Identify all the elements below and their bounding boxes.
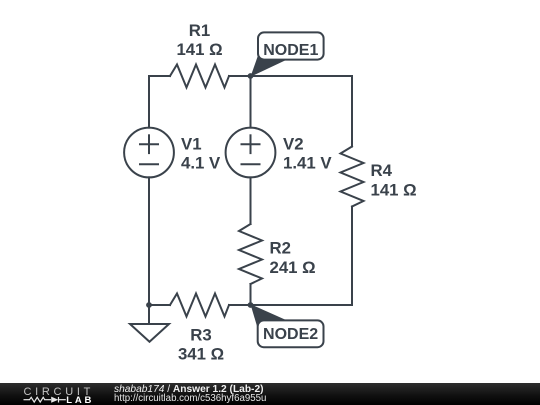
svg-text:V2: V2: [283, 135, 304, 154]
svg-text:141 Ω: 141 Ω: [371, 180, 417, 199]
voltage source V2: [226, 128, 276, 178]
svg-text:241 Ω: 241 Ω: [270, 258, 316, 277]
svg-text:LAB: LAB: [66, 395, 94, 405]
svg-text:4.1 V: 4.1 V: [181, 154, 221, 173]
footer bar: [0, 383, 540, 405]
wire V2 to R2: [250, 177, 252, 224]
node NODE2 callout pointer: [251, 304, 287, 333]
wire R1 to top-right corner: [229, 75, 352, 77]
wire right branch upper: [351, 76, 353, 147]
label V2: [283, 135, 332, 173]
label R3: [178, 326, 224, 364]
svg-text:R2: R2: [270, 239, 291, 258]
svg-text:R1: R1: [189, 21, 210, 40]
svg-text:141 Ω: 141 Ω: [176, 40, 222, 59]
node NODE2 dot: [248, 302, 254, 308]
svg-text:NODE1: NODE1: [263, 42, 318, 59]
svg-text:V1: V1: [181, 135, 202, 154]
svg-text:http://circuitlab.com/c536hyf6: http://circuitlab.com/c536hyf6a955u: [114, 393, 266, 404]
node NODE1 callout pointer: [251, 54, 286, 77]
svg-text:R4: R4: [371, 161, 393, 180]
svg-text:R3: R3: [190, 326, 211, 345]
ground stub: [148, 305, 150, 324]
label R1: [176, 21, 222, 59]
resistor R4: [341, 147, 364, 207]
label V1: [181, 135, 221, 173]
logo wire with resistor and diode: [24, 397, 66, 403]
svg-text:341 Ω: 341 Ω: [178, 345, 224, 364]
wire top-left to R1: [149, 75, 170, 77]
svg-text:NODE2: NODE2: [263, 326, 318, 343]
wire middle branch upper: [250, 76, 252, 128]
node NODE2 label box: [258, 320, 324, 347]
node NODE1 dot: [248, 73, 254, 79]
voltage source V1: [124, 128, 174, 178]
label R2: [270, 239, 316, 277]
wire R2 to bottom node: [250, 284, 252, 305]
wire V1 bottom lead: [148, 177, 150, 305]
ground: [130, 324, 169, 342]
resistor R1: [170, 65, 229, 88]
resistor R3: [170, 294, 229, 317]
svg-text:1.41 V: 1.41 V: [283, 154, 332, 173]
resistor R2: [239, 224, 262, 284]
wire left branch upper: [148, 76, 150, 128]
node NODE1 label box: [258, 32, 324, 59]
wire R3 to bottom-right corner: [229, 304, 352, 306]
junction dot ground: [146, 302, 152, 308]
wire right branch lower: [351, 207, 353, 306]
wire bottom-left to R3: [149, 304, 170, 306]
label R4: [371, 161, 417, 199]
